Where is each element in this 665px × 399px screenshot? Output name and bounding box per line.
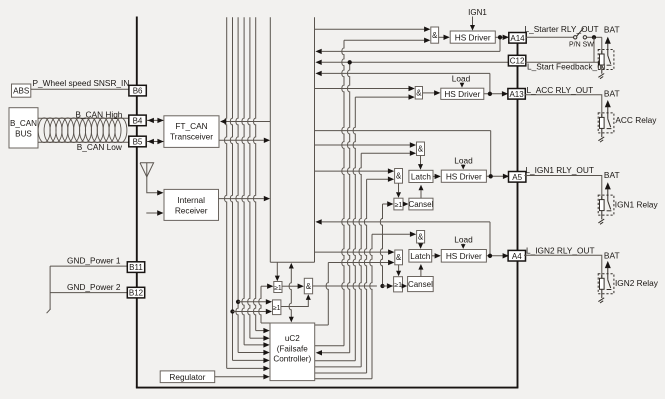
wire HS1 to A14 (495, 36, 509, 38)
AND gate U-IGN1-low (395, 169, 403, 184)
terminal B12 (127, 287, 144, 298)
svg-text:Regulator: Regulator (169, 372, 205, 382)
nest wire g7 (cancel line to OR gates) (380, 204, 382, 286)
nest wire g6 (to AND-IGN2-upper) (370, 234, 372, 379)
ECU enclosure bottom border (136, 387, 519, 389)
AND gate U-IGN2-up (417, 231, 425, 244)
uC1 main controller box (left edge) (269, 17, 271, 262)
bundle wire 6 (254, 17, 256, 330)
svg-text:(Failsafe: (Failsafe (277, 344, 309, 353)
svg-text:L_ACC RLY_OUT: L_ACC RLY_OUT (527, 85, 594, 95)
svg-text:P/N SW: P/N SW (569, 42, 594, 49)
wire uC1 to AND-IGN1-lower upper input (315, 170, 389, 172)
twisted pair B_CAN High wire (38, 117, 129, 119)
Cansel box 1 (409, 198, 433, 210)
wire Latch2 to HS Driver 4 (432, 255, 435, 257)
wire OR to Cansel 2 (402, 284, 408, 289)
svg-text:&: & (396, 172, 402, 181)
wire AND-IGN2-low to OR-IGN2 (398, 265, 400, 271)
svg-text:B12: B12 (129, 289, 144, 298)
svg-text:uC2: uC2 (285, 334, 300, 343)
wire bundle to OR-B lower (233, 311, 267, 313)
svg-text:&: & (418, 233, 424, 242)
svg-text:&: & (306, 282, 312, 291)
terminal A13 (508, 89, 525, 100)
uC1 main controller box (right edge) (314, 17, 316, 262)
ABS box (12, 84, 31, 97)
IGN2 relay K4 (605, 261, 611, 268)
OR gate U-IGN2 (394, 277, 403, 292)
wire OR-A to AND-FS (282, 285, 298, 287)
junction dot HS1 output (498, 35, 502, 39)
AND gate U-FS (304, 278, 312, 294)
svg-text:B_CAN Low: B_CAN Low (77, 142, 123, 152)
wire start feedback (593, 37, 595, 62)
svg-text:A13: A13 (509, 90, 524, 99)
wire FT_CAN tx to uC1 (219, 139, 264, 141)
svg-text:IGN1: IGN1 (468, 8, 487, 17)
svg-text:&: & (418, 145, 424, 154)
svg-text:Controller): Controller) (273, 355, 311, 364)
wire B4 to FT_CAN (bidirectional) (147, 119, 164, 121)
bundle wire 1 (225, 17, 227, 368)
svg-text:HS Driver: HS Driver (446, 171, 482, 181)
OR gate U-FSA (274, 282, 282, 293)
svg-text:≥1: ≥1 (274, 285, 282, 292)
AND gate U-IGN2-low (395, 250, 403, 265)
P/N SW switch (574, 36, 577, 39)
wire AND-IGN2-up to Latch 2 (420, 242, 422, 245)
wire AND-FS output (cancel) (313, 285, 377, 287)
junction dot bundle wire 2 (230, 309, 234, 313)
junction dot HS4 output (488, 254, 492, 258)
junction dot bundle wire 3 (236, 300, 240, 304)
wire OR-A input from bundle (261, 285, 267, 287)
junction dot HS2 output (488, 92, 492, 96)
AND gate U-A14 (431, 27, 439, 43)
nest wire g8 (to AND-IGN2-lower) (326, 263, 328, 326)
ECU enclosure left border (136, 17, 138, 388)
svg-text:≥1: ≥1 (395, 202, 403, 209)
svg-text:≥1: ≥1 (394, 282, 402, 289)
bundle wire 3 (236, 17, 238, 352)
svg-text:GND_Power 2: GND_Power 2 (67, 282, 121, 292)
svg-text:Load: Load (454, 155, 473, 165)
HS Driver 1 box (450, 31, 495, 43)
wire HS3 to A5 (486, 175, 509, 177)
terminal A5 (509, 172, 526, 183)
terminal A4 (508, 250, 525, 261)
wire uC1 to AND-IGN2-lower upper input (315, 251, 389, 253)
svg-text:GND_Power 1: GND_Power 1 (67, 255, 121, 265)
ground stub wire (49, 266, 51, 309)
bundle wire 5 (248, 17, 250, 338)
wire uC1 to AND-IGN1-upper input (315, 144, 410, 146)
terminal B4 (129, 115, 146, 126)
Latch box 1 (409, 170, 433, 182)
uC1-uC2 link wire (289, 269, 291, 317)
svg-text:Latch: Latch (411, 173, 431, 182)
svg-text:IGN2 Relay: IGN2 Relay (615, 278, 659, 288)
ECU enclosure right border (517, 33, 519, 388)
junction dot C12 line (348, 60, 352, 64)
svg-text:Internal: Internal (177, 195, 205, 205)
bundle wire 2 (230, 17, 232, 360)
wire OR-B output to AND-FS (281, 300, 308, 307)
wire HS4 output feedback to uC1 (322, 221, 490, 223)
svg-text:FT_CAN: FT_CAN (175, 121, 207, 131)
terminal B6 (129, 85, 146, 96)
wire HS1 output feedback to uC1 (322, 50, 500, 52)
wire Cansel1 to Latch1 (420, 190, 422, 198)
svg-text:&: & (396, 253, 402, 262)
svg-text:IGN1 Relay: IGN1 Relay (615, 200, 659, 210)
wire Internal Receiver to uC1 (219, 198, 264, 200)
HS Driver 4 box (441, 250, 486, 263)
OR gate U-IGN1 (394, 198, 403, 210)
svg-text:A14: A14 (510, 34, 525, 43)
wire AND-IGN1-up to Latch 1 (420, 156, 422, 165)
svg-text:C12: C12 (510, 57, 525, 66)
svg-text:HS Driver: HS Driver (455, 32, 491, 42)
Latch box 2 (409, 250, 432, 263)
terminal B11 (127, 262, 144, 273)
svg-text:A4: A4 (512, 252, 522, 261)
svg-text:L_IGN2 RLY_OUT: L_IGN2 RLY_OUT (526, 245, 595, 255)
wire HS2 to A13 (484, 93, 509, 95)
terminal C12 (508, 55, 525, 66)
svg-text:Cansel: Cansel (408, 200, 433, 209)
twisted pair loops (38, 118, 127, 143)
nest wire g3 (to AND-A13) (353, 97, 355, 361)
wire uC1 to AND-A13 upper input (315, 88, 409, 90)
Cansel box 2 (408, 277, 434, 292)
ACC relay K2 (605, 100, 611, 107)
svg-text:&: & (416, 89, 422, 98)
wire P/N SW to starter relay coil (587, 36, 602, 38)
svg-text:Cansel: Cansel (408, 280, 433, 289)
nest wire g2 (C12 sense to uC2) (348, 62, 350, 353)
GND_Power 2 wire (50, 292, 127, 294)
svg-text:B_CAN High: B_CAN High (75, 110, 122, 120)
GND_Power 1 wire (50, 265, 127, 267)
svg-text:L_Start Feedback_IN: L_Start Feedback_IN (527, 62, 605, 72)
ground (598, 298, 604, 302)
svg-text:L_Starter RLY_OUT: L_Starter RLY_OUT (525, 24, 599, 34)
wire HS3 output feedback to uC1 (315, 130, 491, 132)
wire OR to Cansel 1 (403, 202, 409, 207)
wire IGN1 into HS Driver 1 (472, 17, 474, 26)
wire HS4 to A4 (486, 255, 509, 257)
antenna (140, 163, 154, 177)
svg-text:≥1: ≥1 (273, 305, 281, 312)
uC2 failsafe controller box (270, 323, 315, 381)
junction dot starter feedback (592, 35, 596, 39)
AND gate U-IGN1-up (417, 142, 425, 156)
svg-text:Latch: Latch (410, 252, 430, 261)
Regulator box (160, 371, 215, 383)
starter relay K1 (605, 37, 611, 44)
svg-text:Transceiver: Transceiver (170, 132, 213, 142)
nest wire g5 (to AND-IGN1-lower) (364, 179, 366, 373)
twisted pair B_CAN Low wire (38, 141, 129, 143)
svg-text:B4: B4 (133, 117, 143, 126)
svg-text:HS Driver: HS Driver (446, 251, 482, 261)
wire antenna to receiver (147, 177, 158, 193)
wire A14 to P/N SW (526, 36, 574, 38)
wire P_Wheel speed SNSR_IN (31, 88, 129, 90)
svg-text:P_Wheel speed SNSR_IN: P_Wheel speed SNSR_IN (33, 78, 130, 88)
wire B5 to FT_CAN (bidirectional) (147, 141, 164, 143)
OR gate U-FSB (273, 300, 281, 315)
svg-text:BAT: BAT (604, 250, 620, 260)
wire stub receiver input 2 (146, 212, 157, 214)
svg-text:&: & (432, 31, 438, 40)
ground (598, 219, 604, 223)
svg-text:ACC Relay: ACC Relay (615, 115, 657, 125)
svg-text:ABS: ABS (13, 87, 30, 96)
svg-text:BAT: BAT (604, 24, 620, 34)
wire AND to HS Driver 1 (439, 36, 444, 38)
wire Cansel2 to Latch2 (420, 270, 422, 277)
HS Driver 3 box (441, 170, 486, 182)
svg-text:Load: Load (454, 235, 473, 245)
ground (598, 137, 604, 141)
wire Latch1 to HS Driver 3 (433, 175, 435, 177)
svg-text:A5: A5 (512, 173, 522, 182)
svg-text:B_CAN: B_CAN (10, 119, 37, 128)
wire C12 to uC1 (start feedback) (322, 61, 510, 63)
svg-text:BAT: BAT (604, 89, 620, 99)
nest wire g4 (to AND-IGN1-upper) (359, 153, 361, 367)
ground (598, 74, 604, 78)
terminal A14 (509, 33, 526, 44)
Internal Receiver box U-RX (164, 189, 219, 220)
svg-text:B5: B5 (133, 138, 143, 147)
svg-text:Load: Load (452, 74, 471, 84)
wire uC1 to FT_CAN rx (226, 121, 270, 123)
AND gate U-A13 (415, 87, 422, 100)
wire AND to HS Driver 2 (423, 92, 435, 94)
wire uC1 to OR-A (276, 262, 278, 275)
svg-text:BAT: BAT (604, 170, 620, 180)
svg-text:B6: B6 (133, 87, 143, 96)
junction dot HS3 output (489, 174, 493, 178)
junction dot cancel line (380, 284, 384, 288)
B_CAN BUS box (9, 108, 38, 148)
HS Driver 2 box (441, 88, 484, 99)
wire AND-IGN1-low to OR-IGN1 (398, 183, 400, 192)
svg-text:L_IGN1 RLY_OUT: L_IGN1 RLY_OUT (525, 165, 594, 175)
wire HS2 output feedback to uC1 (322, 72, 490, 74)
svg-text:BUS: BUS (15, 130, 32, 139)
wire bundle to OR-B upper (238, 301, 266, 303)
uC1 main controller box (bottom edge) (270, 261, 314, 263)
IGN1 relay K3 (605, 182, 611, 189)
wire uC1 to AND-A14 upper input (315, 28, 425, 30)
svg-text:Receiver: Receiver (175, 205, 208, 215)
wire Regulator to uC2 (215, 376, 264, 378)
svg-text:HS Driver: HS Driver (444, 89, 480, 99)
terminal B5 (129, 136, 146, 147)
bundle wire 4 (242, 17, 244, 345)
FT_CAN Transceiver box U-FTCAN (164, 116, 219, 148)
nest wire g1 (to AND-A14) (342, 40, 344, 346)
svg-text:B11: B11 (129, 263, 143, 272)
